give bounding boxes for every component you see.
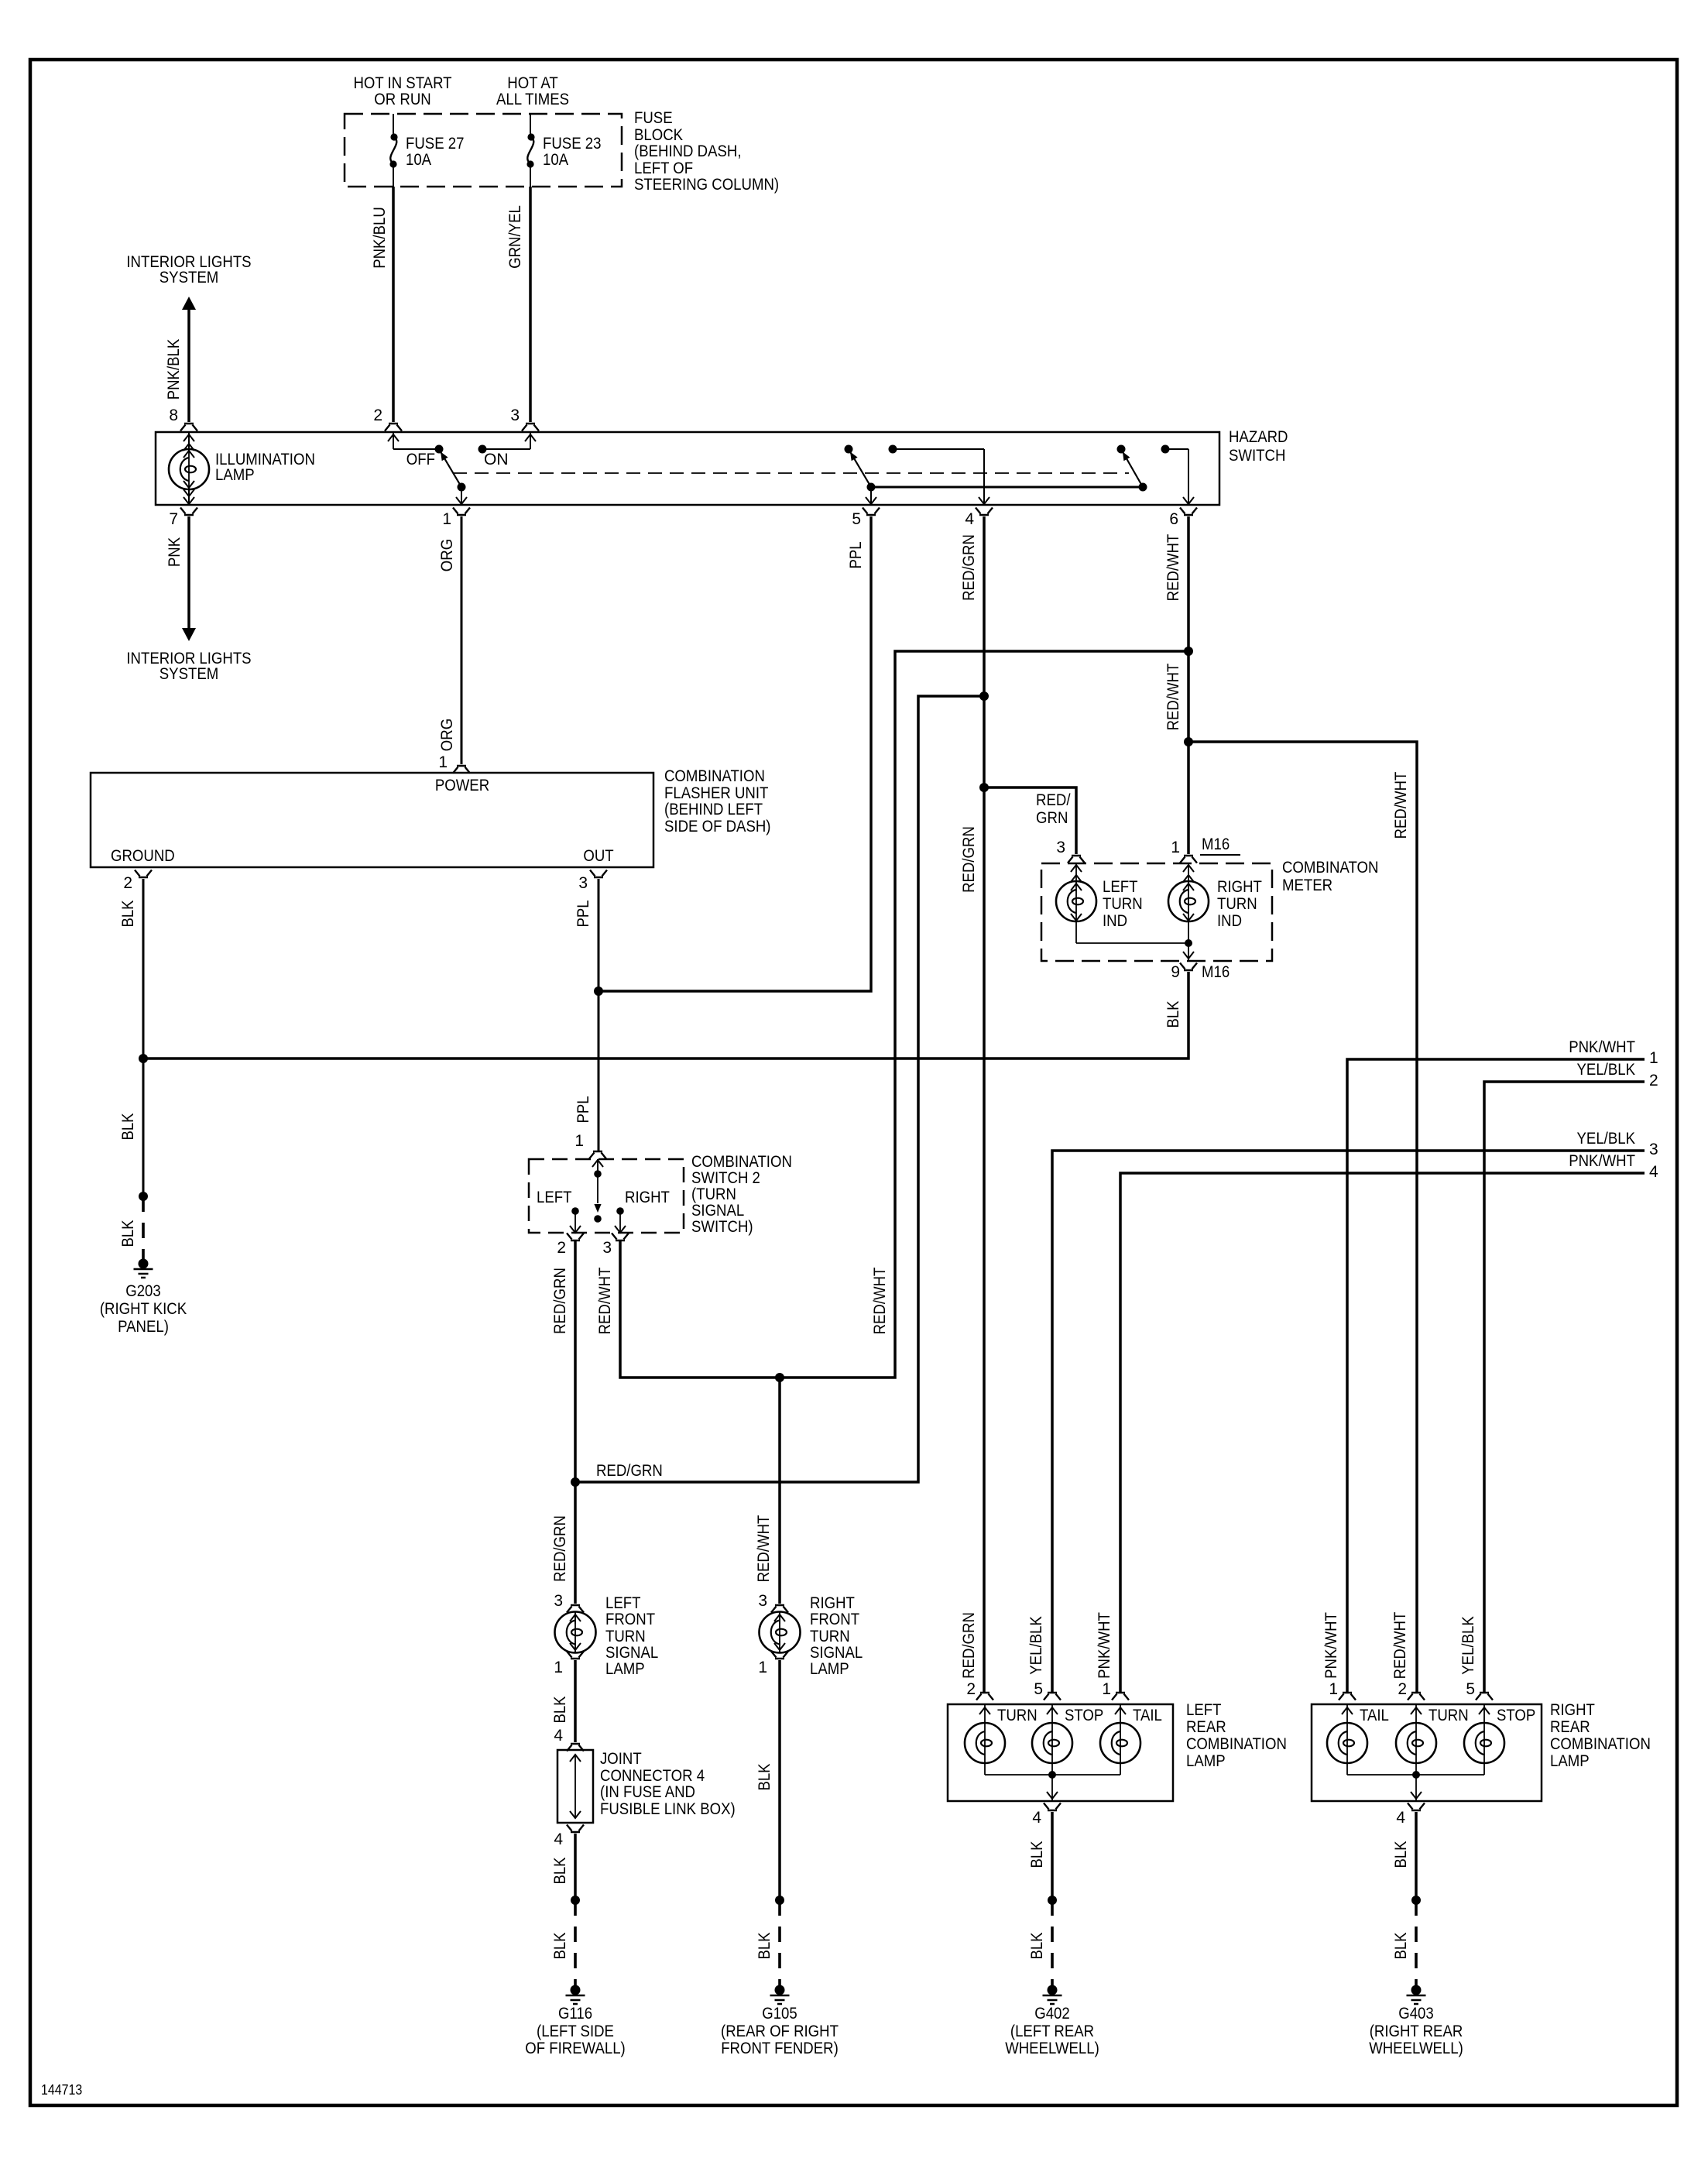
svg-text:CONNECTOR 4: CONNECTOR 4 [600, 1767, 705, 1785]
pivot dot pin 5 [866, 483, 876, 505]
svg-text:3: 3 [1056, 839, 1065, 856]
left turn indicator lamp [1056, 863, 1143, 943]
junction BLK to G203 [139, 1192, 148, 1201]
svg-text:PNK/BLK: PNK/BLK [165, 339, 183, 400]
svg-text:RED/GRN: RED/GRN [960, 534, 978, 601]
svg-text:SWITCH 2: SWITCH 2 [691, 1169, 760, 1187]
svg-text:RED/GRN: RED/GRN [960, 1612, 978, 1679]
svg-text:BLK: BLK [1028, 1932, 1046, 1959]
contact dot (pin 5 blade upper) [845, 445, 853, 454]
wire GRN/YEL (fuse 23 to hazard switch pin 3) [506, 187, 530, 422]
svg-text:3: 3 [578, 874, 588, 892]
wire PPL branch to hazard pin 5 [598, 516, 871, 991]
pin 2 connector (left rear lamp) [966, 1680, 993, 1700]
svg-text:LEFT: LEFT [605, 1594, 641, 1612]
pin 4 connector (joint connector top) [554, 1727, 584, 1752]
ground G116 [525, 1985, 626, 2058]
svg-text:RED/WHT: RED/WHT [1392, 771, 1410, 839]
svg-text:BLK: BLK [551, 1932, 569, 1959]
svg-text:144713: 144713 [41, 2082, 82, 2098]
svg-text:BLK: BLK [119, 1113, 137, 1140]
contact dot to pin 4 [889, 445, 990, 505]
junction RED/GRN branch to combination meter [979, 783, 989, 792]
svg-text:COMBINATION: COMBINATION [691, 1153, 792, 1171]
svg-text:LAMP: LAMP [1550, 1752, 1590, 1770]
pin 2 connector (hazard switch top) [373, 407, 402, 431]
hazard switch internal wire from pin 3 [482, 432, 536, 449]
junction BLK to G403 [1411, 1896, 1421, 1905]
svg-text:1: 1 [1102, 1680, 1111, 1698]
wire RED/GRN to left front turn signal lamp [551, 1482, 575, 1604]
svg-text:FUSE: FUSE [634, 109, 673, 127]
svg-text:7: 7 [169, 510, 178, 528]
svg-text:3: 3 [602, 1239, 612, 1257]
svg-text:GROUND: GROUND [111, 847, 175, 865]
wire BLK dashed to G402 [1028, 1900, 1052, 1988]
node INTERIOR LIGHTS SYSTEM (top, off-page arrow) [126, 253, 251, 422]
svg-text:COMBINATION: COMBINATION [1550, 1735, 1651, 1753]
switch blade (left lamps pole) [850, 451, 871, 487]
svg-text:PNK: PNK [166, 537, 183, 567]
right turn indicator lamp [1168, 863, 1262, 943]
pivot dot (right) [1139, 483, 1147, 492]
pin 9 connector M16 (combination meter bottom) [1171, 963, 1230, 982]
svg-text:BLK: BLK [119, 900, 137, 927]
svg-text:10A: 10A [406, 151, 431, 169]
wire BLK (left front lamp to joint connector) [551, 1660, 575, 1742]
contact dot to pin 6 [1161, 445, 1195, 505]
svg-text:TURN: TURN [810, 1628, 850, 1645]
wire PNK/BLK label [165, 339, 183, 400]
svg-text:BLK: BLK [1392, 1841, 1410, 1868]
pin 1 connector (left front lamp) [554, 1652, 584, 1677]
svg-text:FUSE 23: FUSE 23 [543, 135, 602, 153]
junction RED/GRN branch to turn signal switch [979, 691, 989, 701]
svg-text:(RIGHT KICK: (RIGHT KICK [100, 1300, 187, 1318]
svg-text:M16: M16 [1202, 963, 1230, 981]
turn signal switch common pole [592, 1159, 603, 1223]
svg-text:BLK: BLK [1392, 1932, 1410, 1959]
svg-text:RED/WHT: RED/WHT [1164, 534, 1182, 601]
pin 1 connector (turn signal switch) [574, 1132, 606, 1159]
svg-text:FUSE 27: FUSE 27 [406, 135, 465, 153]
svg-text:3: 3 [1649, 1141, 1658, 1158]
svg-text:4: 4 [554, 1727, 563, 1745]
figure number 144713 [41, 2082, 82, 2098]
junction RED/GRN at left front lamp wire [571, 1462, 663, 1487]
svg-text:YEL/BLK: YEL/BLK [1577, 1061, 1636, 1079]
svg-text:RIGHT: RIGHT [625, 1189, 670, 1206]
contact dot (pin 6 blade upper) [1117, 445, 1126, 454]
junction BLK ground bus [139, 1054, 148, 1063]
svg-text:PNK/WHT: PNK/WHT [1569, 1038, 1635, 1056]
node HOT AT ALL TIMES (power feed) [496, 74, 569, 108]
pin 3 connector (left front lamp) [554, 1592, 584, 1613]
svg-text:WHEELWELL): WHEELWELL) [1005, 2040, 1099, 2057]
svg-text:LAMP: LAMP [215, 466, 255, 484]
svg-text:REAR: REAR [1186, 1718, 1226, 1736]
svg-text:RIGHT: RIGHT [1550, 1701, 1595, 1719]
wire RED/GRN (hazard pin 4 main vertical to left rear TURN) [960, 516, 984, 1693]
svg-text:BLK: BLK [1028, 1841, 1046, 1868]
svg-text:RED/WHT: RED/WHT [596, 1267, 614, 1334]
pin 8 connector (hazard switch top) [169, 407, 197, 431]
svg-text:5: 5 [1034, 1680, 1043, 1698]
svg-text:4: 4 [554, 1830, 563, 1848]
svg-text:PPL: PPL [574, 1096, 592, 1123]
svg-text:TURN: TURN [997, 1707, 1037, 1724]
svg-text:BLK: BLK [756, 1932, 773, 1959]
svg-text:FLASHER UNIT: FLASHER UNIT [664, 784, 769, 802]
svg-text:(IN FUSE AND: (IN FUSE AND [600, 1783, 695, 1801]
svg-text:PPL: PPL [574, 900, 592, 927]
meter internal ground bus [1076, 939, 1194, 961]
svg-text:G402: G402 [1034, 2005, 1070, 2023]
wire BLK (right rear lamp to G403) [1392, 1812, 1416, 1900]
wire BLK (flasher ground to G203) [119, 879, 143, 1196]
svg-text:LEFT: LEFT [1103, 878, 1138, 896]
svg-text:POWER: POWER [435, 777, 489, 794]
wire RED/WHT branch to turn signal switch RIGHT [596, 651, 1188, 1378]
svg-text:TURN: TURN [605, 1628, 646, 1645]
pin 3 connector (hazard switch top) [510, 407, 539, 431]
svg-text:1: 1 [1329, 1680, 1338, 1698]
svg-text:(BEHIND LEFT: (BEHIND LEFT [664, 801, 763, 818]
svg-text:YEL/BLK: YEL/BLK [1027, 1616, 1045, 1675]
svg-text:YEL/BLK: YEL/BLK [1459, 1616, 1477, 1675]
pivot dot and wire to pin 1 [456, 483, 467, 505]
svg-text:1: 1 [1649, 1049, 1658, 1067]
svg-text:1: 1 [438, 753, 448, 771]
svg-text:STOP: STOP [1065, 1707, 1103, 1724]
node HOT IN START OR RUN (power feed) [353, 74, 451, 108]
svg-text:GRN/YEL: GRN/YEL [506, 205, 524, 269]
svg-text:BLK: BLK [119, 1220, 137, 1247]
pin 5 connector (hazard bottom) [852, 508, 880, 529]
svg-text:PNK/WHT: PNK/WHT [1569, 1152, 1635, 1170]
svg-text:BLK: BLK [551, 1857, 569, 1884]
svg-text:2: 2 [1649, 1072, 1658, 1089]
right rear TAIL lamp [1327, 1704, 1389, 1775]
svg-text:RED/: RED/ [1036, 791, 1071, 809]
svg-text:3: 3 [510, 407, 520, 424]
svg-text:RED/WHT: RED/WHT [871, 1267, 889, 1334]
wire YEL/BLK 3 (left rear STOP feed) [1027, 1130, 1658, 1693]
ground G403 [1369, 1985, 1463, 2058]
svg-text:COMBINATION: COMBINATION [664, 767, 765, 785]
svg-text:1: 1 [758, 1659, 767, 1676]
svg-text:STOP: STOP [1497, 1707, 1535, 1724]
fuse block (dashed enclosure) [345, 114, 622, 187]
svg-text:(LEFT SIDE: (LEFT SIDE [537, 2023, 614, 2040]
svg-text:M16: M16 [1202, 835, 1230, 853]
svg-text:TAIL: TAIL [1133, 1707, 1162, 1724]
svg-text:JOINT: JOINT [600, 1750, 642, 1768]
svg-text:4: 4 [1032, 1809, 1041, 1827]
svg-text:HOT IN START: HOT IN START [353, 74, 451, 92]
svg-text:1: 1 [442, 510, 451, 528]
junction BLK to G105 [775, 1896, 784, 1905]
svg-text:REAR: REAR [1550, 1718, 1590, 1736]
svg-text:RED/WHT: RED/WHT [1391, 1611, 1409, 1679]
svg-text:RED/GRN: RED/GRN [551, 1268, 569, 1334]
pin 5 connector (right rear lamp) [1466, 1680, 1493, 1700]
svg-text:PPL: PPL [847, 541, 865, 568]
wire BLK (meter pin 9 down) [1164, 1000, 1182, 1028]
pin 3 connector (turn signal switch bottom) [602, 1233, 629, 1257]
junction BLK to G116 [571, 1896, 580, 1905]
wire PPL (flasher OUT down to turn signal switch) [574, 879, 598, 1151]
svg-text:TURN: TURN [1103, 895, 1143, 913]
svg-text:10A: 10A [543, 151, 568, 169]
svg-text:ALL TIMES: ALL TIMES [496, 91, 569, 108]
svg-text:BLK: BLK [1164, 1000, 1182, 1028]
svg-text:1: 1 [574, 1132, 584, 1150]
svg-text:3: 3 [758, 1592, 767, 1610]
svg-text:PNK/WHT: PNK/WHT [1096, 1612, 1113, 1679]
switch blade (right lamps pole) [1123, 451, 1143, 487]
svg-text:YEL/BLK: YEL/BLK [1577, 1130, 1636, 1148]
svg-text:LEFT: LEFT [537, 1189, 572, 1206]
svg-text:LAMP: LAMP [605, 1660, 645, 1678]
wire BLK dashed to G105 [756, 1900, 780, 1988]
wire YEL/BLK 2 (right rear STOP feed) [1459, 1061, 1658, 1693]
wire RED/GRN turn signal switch pin 2 [551, 1240, 575, 1482]
left rear combination lamp box [948, 1701, 1287, 1801]
label LEFT [537, 1189, 572, 1206]
left rear STOP lamp [1032, 1704, 1103, 1775]
wire RED/WHT (hazard pin 6 to combination meter pin 1) [1164, 516, 1188, 854]
svg-text:4: 4 [1396, 1809, 1405, 1827]
pin 7 connector (hazard switch bottom) [169, 508, 197, 529]
svg-text:OUT: OUT [583, 847, 613, 865]
illumination lamp [169, 432, 315, 505]
wire RED/WHT to right front turn signal lamp [755, 1378, 780, 1604]
svg-text:COMBINATION: COMBINATION [1186, 1735, 1287, 1753]
fuse block label [634, 109, 779, 194]
wire PNK/BLU (fuse 27 to hazard switch pin 2) [371, 187, 393, 422]
svg-text:2: 2 [123, 874, 132, 892]
svg-text:SYSTEM: SYSTEM [159, 665, 219, 683]
pin 3 connector (right front lamp) [758, 1592, 788, 1613]
svg-text:(TURN: (TURN [691, 1185, 736, 1203]
wire BLK (joint connector to G116) [551, 1834, 575, 1900]
pin 2 connector (right rear lamp) [1398, 1680, 1425, 1700]
pin 4 connector (left rear lamp bottom) [1032, 1803, 1061, 1827]
bar between pivots [871, 486, 1143, 489]
svg-text:1: 1 [1171, 839, 1180, 856]
svg-text:RED/GRN: RED/GRN [551, 1515, 569, 1582]
svg-text:G116: G116 [558, 2005, 592, 2023]
left front turn signal lamp [555, 1594, 659, 1678]
svg-text:ON: ON [484, 451, 509, 468]
svg-text:4: 4 [965, 510, 974, 528]
pin 4 connector (right rear lamp bottom) [1396, 1803, 1425, 1827]
svg-text:LEFT OF: LEFT OF [634, 160, 693, 177]
pin 2 connector (flasher bottom) [123, 870, 152, 893]
svg-text:BLK: BLK [551, 1696, 569, 1723]
svg-text:HOT AT: HOT AT [507, 74, 558, 92]
combination switch 2 (dashed box) [529, 1153, 792, 1236]
svg-text:BLOCK: BLOCK [634, 126, 683, 144]
pin 5 connector (left rear lamp) [1034, 1680, 1061, 1700]
wire BLK (right front lamp to G105) [756, 1660, 780, 1900]
svg-text:OF FIREWALL): OF FIREWALL) [525, 2040, 626, 2057]
wire ORG (hazard pin 1 to flasher POWER) [438, 516, 461, 764]
fuse FUSE 27 10A [389, 114, 464, 187]
wire PNK to interior lights system [166, 516, 196, 641]
pin 1 connector (right rear lamp) [1329, 1680, 1356, 1700]
svg-text:PANEL): PANEL) [118, 1318, 169, 1336]
wire BLK dashed to G116 [551, 1900, 575, 1988]
svg-text:RED/WHT: RED/WHT [1164, 663, 1182, 730]
ground G105 [721, 1985, 839, 2058]
svg-text:PNK/WHT: PNK/WHT [1322, 1612, 1340, 1679]
mechanical link (dashed) [453, 472, 1129, 474]
wire PNK/WHT 1 (right rear TAIL feed) [1322, 1038, 1658, 1693]
label RIGHT [625, 1189, 670, 1206]
svg-text:IND: IND [1217, 912, 1242, 930]
svg-text:TURN: TURN [1428, 1707, 1469, 1724]
contact LEFT (pin 2) [570, 1207, 581, 1233]
pin 1 connector (hazard bottom) [442, 508, 470, 529]
right rear STOP lamp [1464, 1704, 1535, 1775]
pin 2 connector (turn signal switch bottom) [557, 1233, 584, 1257]
svg-text:RED/GRN: RED/GRN [596, 1462, 663, 1480]
right rear lamp ground bus [1347, 1771, 1484, 1801]
junction RED/WHT branch to turn signal switch [1184, 647, 1193, 656]
svg-text:6: 6 [1169, 510, 1178, 528]
svg-text:2: 2 [557, 1239, 566, 1257]
contact OFF [406, 445, 444, 469]
svg-text:SWITCH): SWITCH) [691, 1218, 753, 1236]
pin 1 connector (flasher top) [438, 753, 470, 774]
svg-text:RIGHT: RIGHT [810, 1594, 855, 1612]
svg-text:G105: G105 [762, 2005, 797, 2023]
left rear lamp ground bus [985, 1771, 1120, 1801]
svg-text:OR RUN: OR RUN [374, 91, 430, 108]
wire RED/WHT branch to right rear TURN [1188, 742, 1417, 1693]
wire RED/GRN branch to combination meter pin 3 [984, 787, 1076, 854]
wire RED/GRN branch to turn signal switch LEFT [575, 696, 984, 1482]
hazard switch [156, 428, 1288, 505]
svg-text:RIGHT: RIGHT [1217, 878, 1262, 896]
svg-text:RED/WHT: RED/WHT [755, 1515, 773, 1582]
svg-text:HAZARD: HAZARD [1229, 428, 1288, 446]
joint connector 4 [557, 1750, 736, 1823]
svg-text:(LEFT REAR: (LEFT REAR [1010, 2023, 1094, 2040]
svg-text:METER: METER [1282, 877, 1332, 894]
fuse FUSE 23 10A [526, 114, 601, 187]
svg-text:(REAR OF RIGHT: (REAR OF RIGHT [721, 2023, 839, 2040]
svg-text:COMBINATON: COMBINATON [1282, 859, 1378, 877]
right rear TURN lamp [1396, 1704, 1469, 1775]
svg-text:STEERING COLUMN): STEERING COLUMN) [634, 176, 779, 194]
svg-text:4: 4 [1649, 1163, 1658, 1181]
svg-text:LAMP: LAMP [1186, 1752, 1226, 1770]
pin 1 connector (right front lamp) [758, 1652, 788, 1677]
svg-text:(BEHIND DASH,: (BEHIND DASH, [634, 142, 742, 160]
ground G203 [100, 1259, 187, 1336]
svg-text:9: 9 [1171, 963, 1180, 981]
contact ON [478, 445, 509, 469]
pin 1 connector (left rear lamp) [1102, 1680, 1129, 1700]
svg-text:2: 2 [1398, 1680, 1407, 1698]
ground G402 [1005, 1985, 1099, 2058]
svg-text:FRONT: FRONT [810, 1611, 859, 1628]
pin 3 connector (combination meter) [1056, 839, 1085, 863]
wire PNK/WHT 4 (left rear TAIL feed) [1096, 1152, 1658, 1693]
svg-text:SIGNAL: SIGNAL [605, 1644, 658, 1662]
svg-text:SIDE OF DASH): SIDE OF DASH) [664, 818, 771, 835]
pin 4 connector (joint connector bottom) [554, 1825, 584, 1849]
svg-text:RED/GRN: RED/GRN [960, 826, 978, 893]
right rear combination lamp box [1312, 1701, 1651, 1801]
hazard switch internal wire from pin 2 [388, 432, 439, 449]
node INTERIOR LIGHTS SYSTEM (bottom, off-page arrow) [126, 650, 251, 683]
svg-text:SWITCH: SWITCH [1229, 447, 1285, 465]
svg-text:SIGNAL: SIGNAL [810, 1644, 863, 1662]
svg-text:FUSIBLE LINK BOX): FUSIBLE LINK BOX) [600, 1800, 736, 1818]
svg-text:WHEELWELL): WHEELWELL) [1369, 2040, 1463, 2057]
svg-text:1: 1 [554, 1659, 563, 1676]
svg-text:(RIGHT REAR: (RIGHT REAR [1370, 2023, 1463, 2040]
left rear TURN lamp [965, 1704, 1037, 1775]
svg-text:5: 5 [852, 510, 861, 528]
svg-text:TURN: TURN [1217, 895, 1257, 913]
svg-text:3: 3 [554, 1592, 563, 1610]
pin 1 connector M16 (combination meter) [1171, 835, 1240, 863]
wire BLK dashed to G403 [1392, 1900, 1416, 1988]
svg-text:OFF: OFF [406, 451, 435, 468]
svg-text:SIGNAL: SIGNAL [691, 1202, 744, 1220]
svg-text:ORG: ORG [438, 719, 456, 751]
svg-text:PNK/BLU: PNK/BLU [371, 207, 389, 269]
svg-text:FRONT: FRONT [605, 1611, 655, 1628]
combination flasher unit [91, 767, 771, 867]
junction RED/WHT at right front lamp wire [775, 1373, 784, 1382]
junction RED/WHT branch to right rear lamp [1184, 737, 1193, 746]
svg-text:GRN: GRN [1036, 809, 1068, 827]
wire BLK dashed to G203 [119, 1196, 143, 1262]
svg-text:LAMP: LAMP [810, 1660, 849, 1678]
svg-text:8: 8 [169, 407, 178, 424]
svg-text:G403: G403 [1398, 2005, 1434, 2023]
junction BLK to G402 [1048, 1896, 1057, 1905]
right front turn signal lamp [760, 1594, 863, 1678]
junction PPL branch [594, 986, 603, 996]
svg-text:FRONT FENDER): FRONT FENDER) [721, 2040, 839, 2057]
pin 3 connector (flasher bottom) [578, 870, 607, 893]
svg-text:SYSTEM: SYSTEM [159, 269, 219, 286]
contact RIGHT (pin 3) [615, 1207, 626, 1233]
svg-text:BLK: BLK [756, 1763, 773, 1790]
pin 4 connector (hazard bottom) [965, 508, 993, 529]
switch blade (power pole) [441, 451, 461, 487]
svg-text:ORG: ORG [438, 539, 456, 571]
svg-text:G203: G203 [125, 1282, 161, 1300]
svg-text:2: 2 [966, 1680, 976, 1698]
svg-text:5: 5 [1466, 1680, 1475, 1698]
svg-text:2: 2 [373, 407, 382, 424]
wire BLK ground bus to combination meter pin 9 [143, 972, 1188, 1058]
svg-text:LEFT: LEFT [1186, 1701, 1222, 1719]
combination meter (dashed box) [1041, 859, 1378, 961]
left rear TAIL lamp [1100, 1704, 1162, 1775]
wire BLK (left rear lamp to G402) [1028, 1812, 1052, 1900]
svg-text:IND: IND [1103, 912, 1127, 930]
svg-text:TAIL: TAIL [1360, 1707, 1389, 1724]
